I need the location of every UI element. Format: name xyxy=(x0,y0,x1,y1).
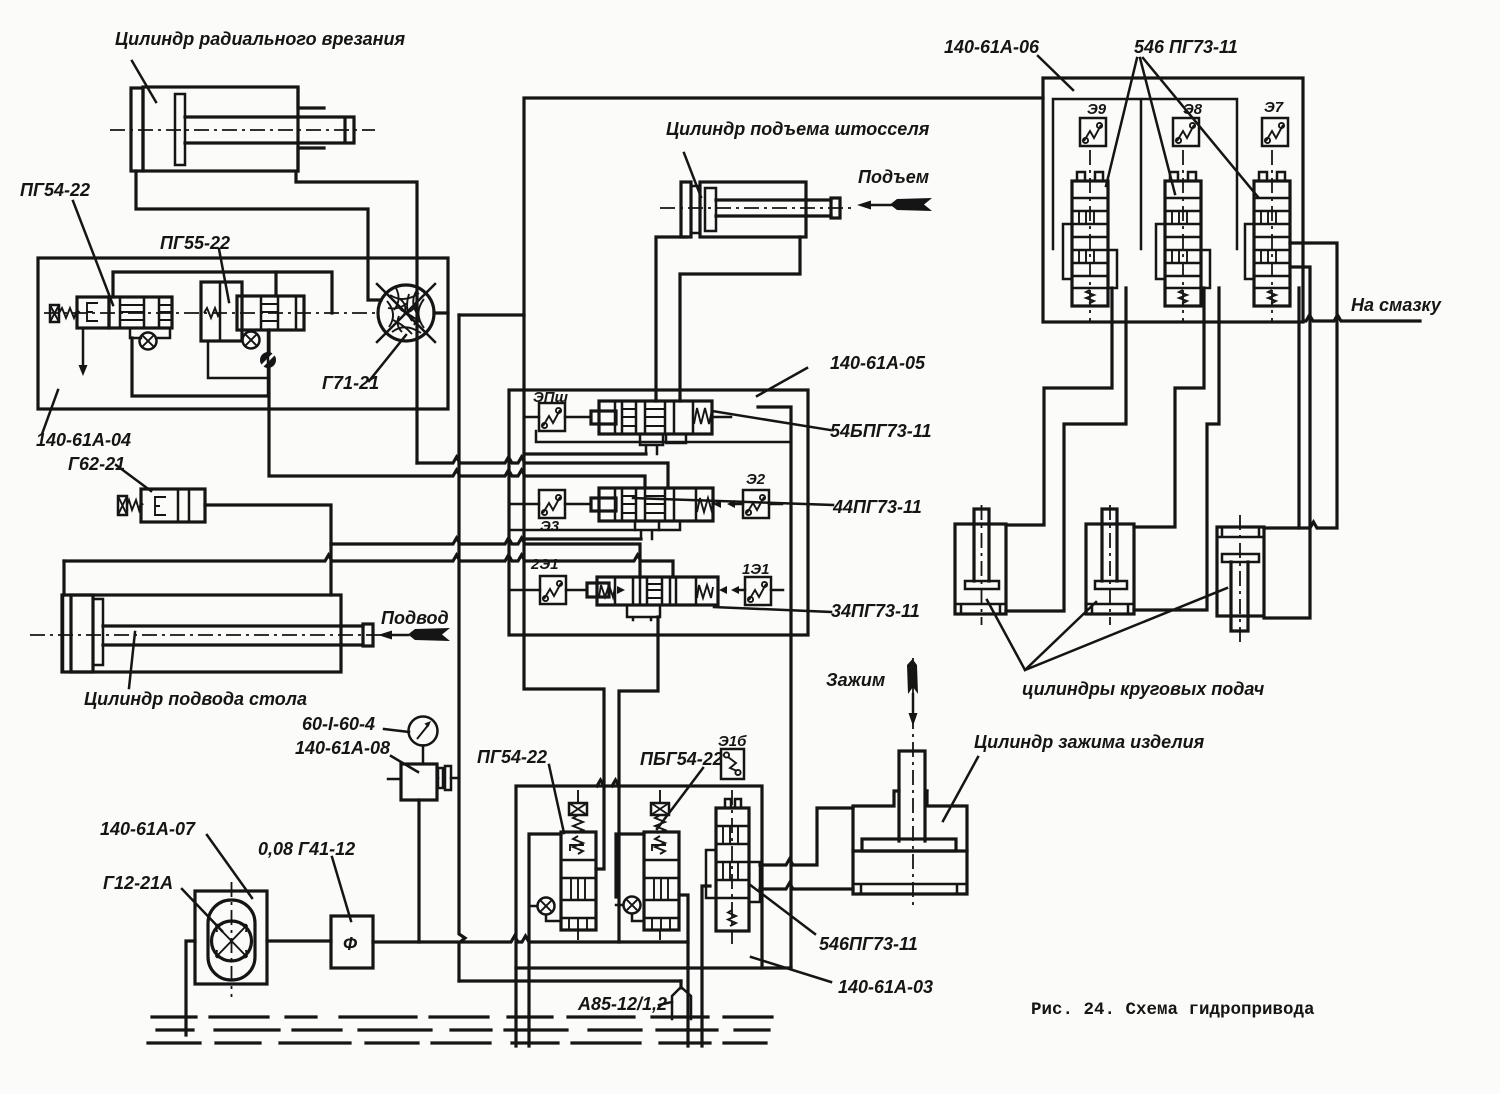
svg-text:На смазку: На смазку xyxy=(1351,295,1442,315)
svg-text:Г71-21: Г71-21 xyxy=(322,373,379,393)
svg-text:Э7: Э7 xyxy=(1264,99,1284,116)
spool body xyxy=(591,498,616,511)
svg-text:140-61А-06: 140-61А-06 xyxy=(944,37,1040,57)
leader 140-61A-04 xyxy=(42,390,58,434)
leader 54BPG73-11 xyxy=(712,411,830,430)
svg-text:Подвод: Подвод xyxy=(381,608,449,628)
valve E8 xyxy=(1156,118,1210,322)
valve PG54-22 (bottom) xyxy=(561,790,596,940)
leader 60-I-60-4 xyxy=(384,729,409,732)
spring right end xyxy=(694,408,712,424)
svg-text:Э2: Э2 xyxy=(746,471,766,488)
clamp cylinder (Цилиндр зажима изделия) xyxy=(853,658,967,908)
svg-text:1Э1: 1Э1 xyxy=(742,561,769,578)
wire E7 port A to cyl C top xyxy=(1264,243,1337,528)
solenoid 1E1 xyxy=(745,577,771,605)
spring right with arrows xyxy=(697,498,715,512)
inner partition lines box06 xyxy=(1053,99,1237,249)
leader PG54-22 bottom xyxy=(549,765,564,833)
spool body xyxy=(587,583,609,597)
box 140-61A-05 xyxy=(509,390,808,635)
bottom tabs xyxy=(627,605,660,620)
box03 left drain pair to tank xyxy=(514,968,517,1046)
cylinder shtossel lift (Цилиндр подъема штосселя) xyxy=(660,182,852,237)
svg-text:2Э1: 2Э1 xyxy=(530,556,558,573)
svg-text:140-61А-07: 140-61А-07 xyxy=(100,819,196,839)
wire E9 port A to cyl A top xyxy=(1006,288,1112,525)
check circle under PG55-22 xyxy=(243,332,260,349)
valve E9 xyxy=(1063,118,1117,322)
check loop PG54-22 bottom xyxy=(529,834,561,1046)
leader 44PG73-11 xyxy=(633,498,833,505)
bottom tabs xyxy=(640,434,686,454)
svg-text:Подъем: Подъем xyxy=(858,167,929,187)
inner line under row1 xyxy=(536,431,791,442)
svg-text:ПГ54-22: ПГ54-22 xyxy=(20,180,90,200)
leader A85 xyxy=(659,1002,672,1005)
svg-text:Рис. 24. Схема гидропривода: Рис. 24. Схема гидропривода xyxy=(1031,1000,1315,1020)
svg-text:Э3: Э3 xyxy=(540,518,560,535)
cylinder circular feed B xyxy=(1086,505,1134,625)
svg-text:54БПГ73-11: 54БПГ73-11 xyxy=(830,421,931,441)
na smazku line xyxy=(1303,315,1420,321)
solenoid E3 xyxy=(539,490,565,518)
leader 34PG73-11 xyxy=(714,607,831,612)
valve block 140-61A-08 xyxy=(388,764,459,942)
arrow Zazhim xyxy=(907,659,918,726)
leader 140-61A-08 xyxy=(391,756,418,772)
pump suction pipe xyxy=(186,941,195,1035)
long vertical x791 (54B valve to clamp circuit) xyxy=(758,407,791,968)
solenoid 2E1 xyxy=(540,576,566,604)
leaders cylinders circular feed xyxy=(987,588,1227,670)
leader cylinder shtossel xyxy=(684,153,701,197)
filter F xyxy=(331,916,373,968)
pump line filter to box03 xyxy=(373,936,688,942)
wire drain box04 down and line y476 xyxy=(269,330,645,488)
arrow down under PG54-22 xyxy=(82,328,85,368)
leader 546PG73-11 bottom xyxy=(749,884,815,934)
svg-text:Цилиндр подъема штосселя: Цилиндр подъема штосселя xyxy=(666,119,930,139)
arrow Podjem xyxy=(857,198,932,211)
leader 0,08 G41-12 xyxy=(332,857,351,921)
wire E8 port A to cyl B top xyxy=(1134,288,1204,527)
svg-text:546ПГ73-11: 546ПГ73-11 xyxy=(819,934,918,954)
svg-text:Цилиндр зажима изделия: Цилиндр зажима изделия xyxy=(974,732,1205,752)
leader 140-61A-07 xyxy=(207,835,252,898)
drain line row1 to x524 xyxy=(524,452,646,455)
svg-text:А85-12/1,2: А85-12/1,2 xyxy=(577,994,667,1014)
wire line y463 to valve E3 row xyxy=(417,457,668,488)
spool body xyxy=(591,411,616,424)
leader 140-61A-06 xyxy=(1038,56,1073,90)
valve PG54-22 xyxy=(50,297,172,328)
leader PG54-22 top xyxy=(73,201,113,305)
wire y561 to valve 1E1 xyxy=(64,555,673,577)
svg-text:Цилиндр радиального врезания: Цилиндр радиального врезания xyxy=(115,29,406,49)
leader PBG54-22 xyxy=(657,768,703,829)
svg-text:140-61А-03: 140-61А-03 xyxy=(838,977,933,997)
valve G62-21 xyxy=(118,489,205,522)
valve 34PG73-11 (row 2E1/1E1) xyxy=(511,576,783,620)
svg-text:цилиндры круговых подач: цилиндры круговых подач xyxy=(1022,679,1265,699)
svg-text:140-61А-05: 140-61А-05 xyxy=(830,353,926,373)
dark gauge circle xyxy=(260,352,276,368)
leader clamp cylinder xyxy=(943,757,978,821)
svg-text:ПБГ54-22: ПБГ54-22 xyxy=(640,749,723,769)
svg-text:Ф: Ф xyxy=(343,934,357,954)
wire box06 to cyl C top (x1299) xyxy=(1297,288,1300,528)
cylinder circular feed A xyxy=(955,505,1006,625)
wire cyl3 left port down to valve EPsh xyxy=(656,237,686,401)
svg-text:0,08 Г41-12: 0,08 Г41-12 xyxy=(258,839,355,859)
cylinder table feed (Цилиндр подвода стола) xyxy=(30,595,385,672)
valve 54BPG73-11 (row EPsh) xyxy=(526,401,731,454)
line y315 riser to frame xyxy=(459,313,524,316)
drain shelf + check circle under PG54-22 xyxy=(130,328,170,338)
spring right with arrows xyxy=(697,585,713,598)
cylinder radial cutting (Цилиндр радиального врезания) xyxy=(110,87,375,171)
arrow Podvod xyxy=(378,628,450,641)
svg-text:Э9: Э9 xyxy=(1087,101,1107,118)
valve PBG54-22 xyxy=(644,790,679,940)
pressure gauge 60-I-60-4 xyxy=(409,717,438,765)
pump output to filter xyxy=(267,939,331,942)
svg-text:34ПГ73-11: 34ПГ73-11 xyxy=(831,601,920,621)
svg-text:44ПГ73-11: 44ПГ73-11 xyxy=(832,497,922,517)
pilot line over valves xyxy=(113,272,332,313)
leader PG55-22 top xyxy=(219,249,229,302)
solenoid E1b xyxy=(721,749,744,779)
valve E7 xyxy=(1245,118,1290,322)
svg-text:60-I-60-4: 60-I-60-4 xyxy=(302,714,375,734)
solenoid EPsh xyxy=(539,403,565,431)
leader to cylinder radial xyxy=(132,61,156,102)
tank dashes row3 xyxy=(148,1041,766,1044)
wire E8 port B to cyl B bottom xyxy=(1134,288,1219,610)
svg-text:Г12-21А: Г12-21А xyxy=(103,873,173,893)
svg-text:Цилиндр подвода стола: Цилиндр подвода стола xyxy=(84,689,307,709)
wire 546 valve ports to clamp cylinder xyxy=(760,808,853,865)
leader G62-21 xyxy=(116,465,151,491)
bottom tabs xyxy=(635,521,659,539)
wire y544 to valve 2E1 xyxy=(331,538,640,577)
strainer A85-12/1,2 funnel xyxy=(459,981,691,1019)
pump G12-21A xyxy=(195,882,267,997)
leader 140-61A-05 xyxy=(757,368,807,396)
svg-text:140-61А-04: 140-61А-04 xyxy=(36,430,131,450)
valve 44PG73-11 (row E3/E2) xyxy=(511,488,782,539)
tank dashes row2 xyxy=(157,1028,769,1031)
pump G71-21 xyxy=(377,284,448,342)
cylinder circular feed C (rod down) xyxy=(1217,515,1264,645)
valve PG55-22 xyxy=(201,272,304,341)
svg-text:140-61А-08: 140-61А-08 xyxy=(295,738,390,758)
main frame wire: top line y98 and left vertical x524 xyxy=(524,98,1043,869)
box 140-61A-06 xyxy=(1043,78,1303,322)
svg-text:546 ПГ73-11: 546 ПГ73-11 xyxy=(1134,37,1238,57)
tank dashes row1 xyxy=(152,1015,772,1018)
drain PBG54-22 to tank x688 xyxy=(679,895,688,1046)
wire E9 port B to cyl A bottom xyxy=(1006,288,1126,611)
drain 546 to tank x702 xyxy=(702,886,710,1046)
inner lines under row2 xyxy=(509,521,680,530)
drain row3 to tank via x619 xyxy=(619,617,658,942)
solenoid E2 xyxy=(743,490,769,518)
leaders 546 PG73-11 top xyxy=(1106,58,1258,197)
leader 140-61A-03 xyxy=(751,957,831,982)
box 140-61A-03 xyxy=(516,786,762,968)
wire G62-21 out to cyl2 top port xyxy=(205,505,331,595)
svg-text:Зажим: Зажим xyxy=(826,670,885,690)
box 140-61A-04 xyxy=(38,258,448,409)
wire cyl1 left port to pump G71-21 xyxy=(136,171,381,300)
wire cyl1 right port down to line y463 xyxy=(296,172,417,463)
leader G71-21 xyxy=(369,335,406,381)
wire cyl3 right port down to valve EPsh xyxy=(680,237,800,401)
pressure riser x459 xyxy=(459,315,465,981)
wire E7 port B to cyl C bottom xyxy=(1264,267,1310,618)
svg-text:ПГ54-22: ПГ54-22 xyxy=(477,747,547,767)
leader cylinder table xyxy=(129,632,135,688)
dash-dot axis of box04 valves xyxy=(44,312,378,314)
valve 546PG73-11 (bottom, vertical) xyxy=(706,790,760,944)
check loop PBG54-22 xyxy=(616,834,644,897)
svg-text:Э1б: Э1б xyxy=(718,733,747,750)
spring left with arrows xyxy=(599,585,615,597)
leader G12-21A xyxy=(182,889,222,931)
